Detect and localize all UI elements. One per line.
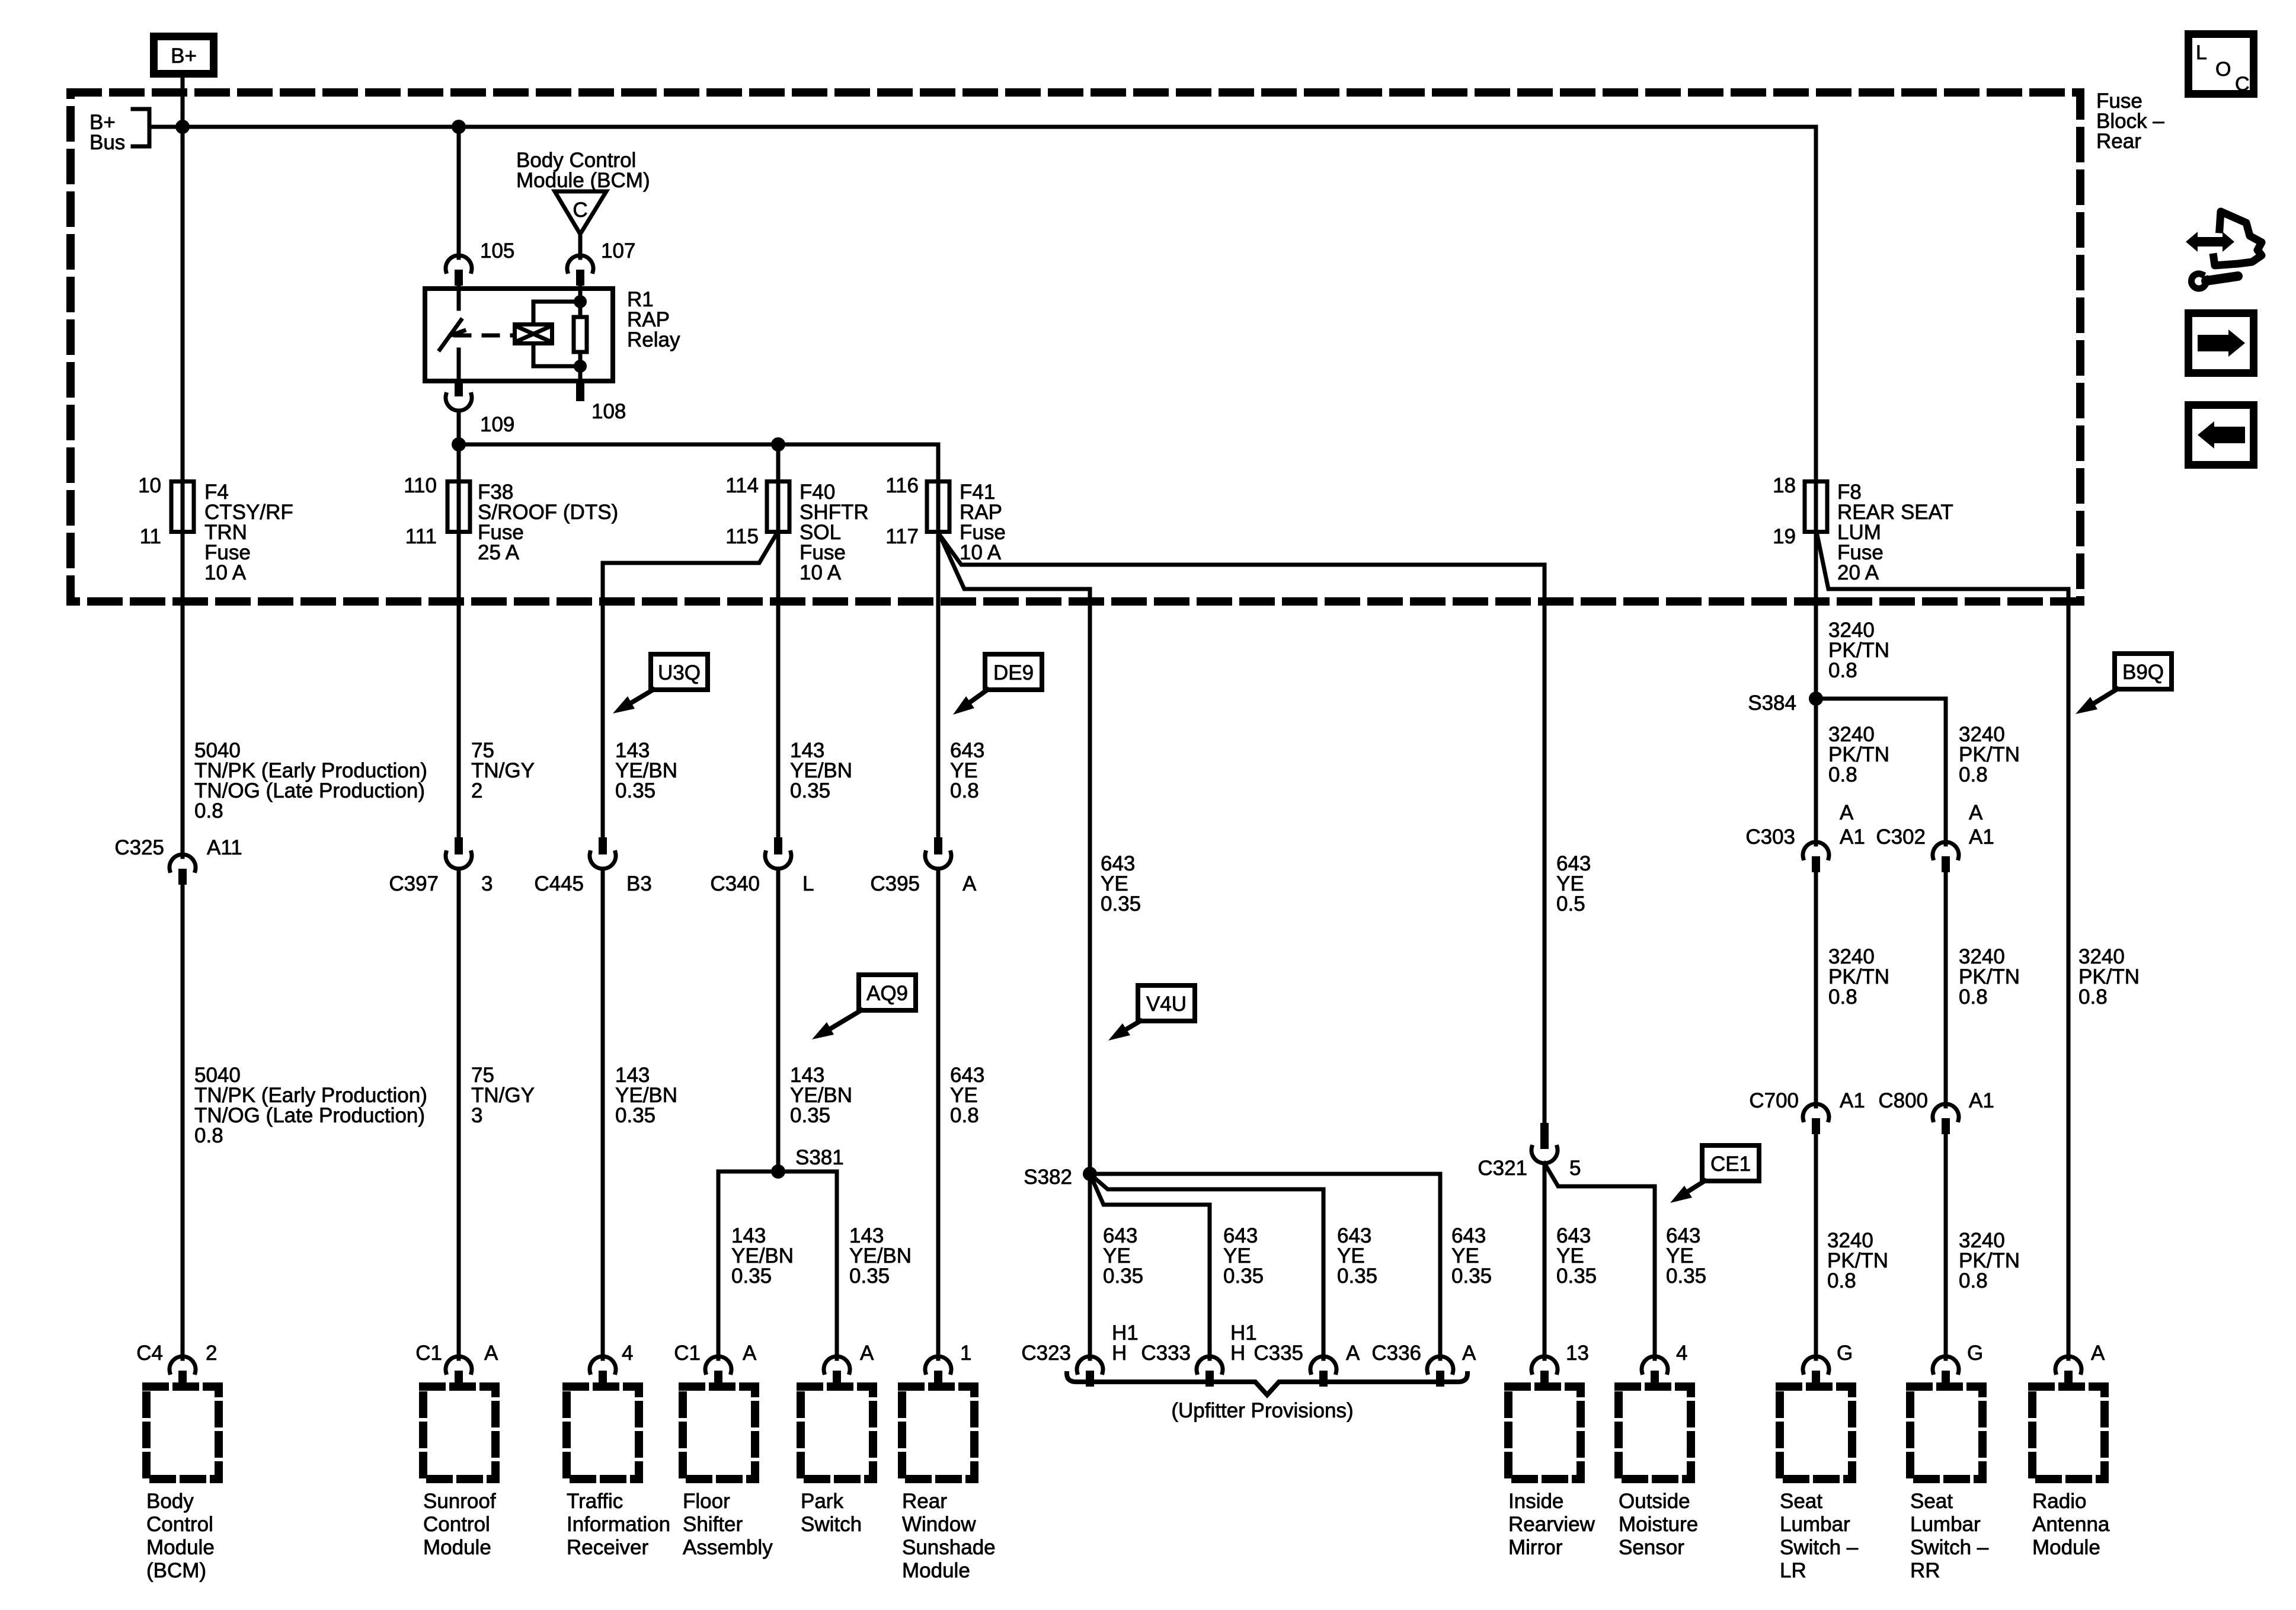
- connector C340 pin L: [774, 837, 782, 854]
- fuse block rear dashed boundary: [71, 92, 2080, 601]
- svg-text:107: 107: [601, 239, 635, 263]
- svg-text:B+: B+: [171, 44, 197, 68]
- svg-text:4: 4: [1676, 1342, 1687, 1365]
- LOC reference box: [2189, 34, 2254, 94]
- connector pin G (seat lumbar RR): [1944, 1355, 1948, 1359]
- module box Traffic Information Receiver: [567, 1387, 639, 1479]
- svg-text:A1: A1: [1969, 825, 1994, 849]
- svg-text:A: A: [484, 1342, 498, 1365]
- wire feed to F40/F41: [459, 443, 938, 447]
- svg-text:114: 114: [725, 474, 759, 497]
- svg-text:(Upfitter Provisions): (Upfitter Provisions): [1171, 1399, 1353, 1422]
- svg-text:V4U: V4U: [1146, 993, 1187, 1016]
- connector C302 pin A/A1: [1944, 840, 1948, 844]
- svg-text:A: A: [2091, 1342, 2105, 1365]
- svg-text:115: 115: [725, 525, 759, 548]
- splice S384: [1809, 692, 1823, 706]
- module box Seat Lumbar Switch RR: [1910, 1387, 1982, 1479]
- wire bus down to F8: [1814, 127, 1818, 479]
- svg-text:3: 3: [481, 872, 493, 895]
- module box Sunroof Control Module: [423, 1387, 495, 1479]
- circuit label V4U with arrow: [1138, 985, 1195, 1021]
- node B+ Bus bracket: [133, 109, 149, 146]
- svg-text:105: 105: [480, 239, 514, 263]
- wire S382 to C333: [1090, 1174, 1210, 1355]
- svg-text:C323: C323: [1021, 1342, 1071, 1365]
- connector pin 109: [455, 383, 463, 396]
- connector C325 pin A11: [181, 853, 185, 857]
- wire S381 to floor shifter: [717, 1172, 721, 1355]
- wire C325 to BCM: [181, 884, 185, 1355]
- svg-text:117: 117: [885, 525, 919, 548]
- connector C395 pin A: [934, 837, 942, 854]
- svg-text:DE9: DE9: [993, 661, 1034, 684]
- wire S381 to park switch: [835, 1172, 839, 1355]
- connector C800 pin A1: [1944, 1102, 1948, 1106]
- connector pin A (radio antenna): [2067, 1355, 2071, 1359]
- svg-text:10: 10: [138, 474, 161, 497]
- svg-text:1: 1: [960, 1342, 971, 1365]
- svg-text:C: C: [573, 199, 587, 222]
- svg-text:18: 18: [1773, 474, 1796, 497]
- svg-text:CE1: CE1: [1710, 1153, 1751, 1176]
- power node B+: [154, 37, 214, 74]
- svg-text:S384: S384: [1748, 692, 1796, 715]
- wire BCM triangle to pin 107: [578, 234, 583, 254]
- svg-text:C445: C445: [534, 872, 584, 895]
- svg-text:L: L: [802, 872, 814, 895]
- svg-text:111: 111: [405, 525, 437, 548]
- svg-text:A: A: [1462, 1342, 1476, 1365]
- svg-text:AQ9: AQ9: [866, 982, 908, 1005]
- wire C303 to C700: [1814, 872, 1818, 1102]
- svg-text:C397: C397: [389, 872, 439, 895]
- svg-text:A: A: [860, 1342, 874, 1365]
- connector pin 105: [457, 254, 461, 258]
- wire F41 branch to C321: [939, 534, 1544, 1123]
- module box Body Control Module: [146, 1387, 219, 1479]
- svg-text:2: 2: [206, 1342, 217, 1365]
- wire F8 branch to radio antenna module: [1817, 534, 2068, 1355]
- wire F40 branch to C445: [603, 534, 776, 837]
- wire pin109 to F38: [457, 411, 461, 479]
- circuit label B9Q with arrow: [2115, 654, 2172, 689]
- svg-text:109: 109: [480, 413, 514, 436]
- fuse F8: [1814, 479, 1818, 534]
- svg-text:U3Q: U3Q: [658, 661, 701, 684]
- wire C340 to S381: [776, 869, 781, 1172]
- svg-text:A1: A1: [1840, 825, 1865, 849]
- circuit label AQ9 with arrow: [859, 975, 916, 1010]
- svg-text:C395: C395: [870, 872, 920, 895]
- relay coil leads: [533, 302, 580, 322]
- svg-text:A: A: [962, 872, 977, 895]
- relay resistor: [578, 286, 583, 317]
- wire C700 to seat lumbar LR: [1814, 1134, 1818, 1355]
- splice S382: [1083, 1167, 1097, 1181]
- connector C336 pin A: [1438, 1355, 1443, 1359]
- svg-text:Body ControlModule (BCM): Body ControlModule (BCM): [516, 149, 650, 192]
- module box Outside Moisture Sensor: [1619, 1387, 1691, 1479]
- svg-text:A: A: [1346, 1342, 1360, 1365]
- svg-text:19: 19: [1773, 525, 1796, 548]
- connector C323 pin H: [1088, 1355, 1092, 1359]
- relay switch: [457, 286, 461, 309]
- splice S381: [718, 1170, 837, 1174]
- svg-text:C1: C1: [674, 1342, 701, 1365]
- svg-text:C: C: [2235, 73, 2250, 95]
- wire bus to relay pin 105: [457, 127, 461, 254]
- upfitter provisions brace: [1067, 1374, 1467, 1395]
- module box Floor Shifter Assembly: [683, 1387, 755, 1479]
- svg-text:A1: A1: [1969, 1089, 1994, 1112]
- circuit label CE1 with arrow: [1702, 1145, 1759, 1181]
- wire F41 to C395: [936, 534, 941, 837]
- junction dot 109 feed: [452, 437, 466, 452]
- svg-text:C302: C302: [1876, 825, 1926, 849]
- wire F41 branch to S382: [941, 538, 1090, 1174]
- fuse F38: [457, 479, 461, 534]
- wire B+ feed down to F4: [181, 78, 185, 479]
- svg-text:116: 116: [885, 474, 919, 497]
- wire S382 to C335: [1090, 1174, 1323, 1355]
- wire C321 branch to moisture sensor: [1544, 1163, 1655, 1355]
- svg-text:108: 108: [591, 400, 626, 423]
- wire F8 to S384: [1814, 534, 1818, 840]
- wire C321 to inside rearview mirror: [1543, 1163, 1547, 1355]
- wire F4 to C325: [181, 534, 185, 853]
- wire S382 to C336: [1090, 1174, 1440, 1355]
- module box Inside Rearview Mirror: [1508, 1387, 1581, 1479]
- svg-text:A: A: [743, 1342, 757, 1365]
- relay linkage dashed: [455, 334, 513, 338]
- svg-text:C336: C336: [1371, 1342, 1421, 1365]
- module box Seat Lumbar Switch LR: [1780, 1387, 1852, 1479]
- svg-text:11: 11: [140, 525, 161, 548]
- connector C1 pin A (sunroof): [457, 1355, 461, 1359]
- svg-text:A1: A1: [1840, 1089, 1865, 1112]
- wire B+ bus horizontal: [149, 125, 1816, 129]
- svg-text:C700: C700: [1749, 1089, 1799, 1112]
- connector pin 4 (traffic receiver): [601, 1355, 605, 1359]
- svg-text:4: 4: [622, 1342, 633, 1365]
- wire C397 to sunroof module: [457, 869, 461, 1355]
- svg-text:B3: B3: [626, 872, 652, 895]
- svg-text:B9Q: B9Q: [2122, 661, 2164, 684]
- connector C303 pin A/A1: [1814, 840, 1818, 844]
- svg-text:C333: C333: [1141, 1342, 1191, 1365]
- svg-text:G: G: [1837, 1342, 1853, 1365]
- connector C700 pin A1: [1814, 1102, 1818, 1106]
- connector C333 pin H: [1208, 1355, 1212, 1359]
- svg-text:C4: C4: [136, 1342, 163, 1365]
- junction dot bus/relay: [452, 120, 466, 134]
- wire S384 branch to C302: [1816, 699, 1946, 840]
- svg-text:C340: C340: [710, 872, 760, 895]
- forward arrow box: [2189, 313, 2254, 373]
- back arrow box: [2189, 405, 2254, 465]
- wire S382 to C323: [1088, 1174, 1092, 1355]
- fuse F40: [776, 479, 781, 534]
- relay pin 108: [576, 383, 584, 401]
- svg-text:O: O: [2215, 58, 2231, 81]
- relay R1 RAP box: [425, 289, 613, 381]
- connector pin 1 (sunshade): [936, 1355, 941, 1359]
- svg-text:C800: C800: [1878, 1089, 1928, 1112]
- wire C800 to seat lumbar RR: [1944, 1134, 1948, 1355]
- junction dot bus/F4: [175, 120, 190, 134]
- svg-text:13: 13: [1566, 1342, 1589, 1365]
- module box Rear Window Sunshade Module: [902, 1387, 974, 1479]
- module box Park Switch: [801, 1387, 873, 1479]
- wire C302 to C800: [1944, 872, 1948, 1102]
- wire C395 to sunshade module: [936, 869, 941, 1355]
- connector pin 4 (moisture sensor): [1653, 1355, 1657, 1359]
- svg-text:SunroofControlModule: SunroofControlModule: [423, 1490, 496, 1559]
- svg-text:5: 5: [1569, 1157, 1581, 1180]
- connector pin 13 (inside mirror): [1543, 1355, 1547, 1359]
- connector C445 pin B3: [599, 837, 607, 854]
- connector pin G (seat lumbar LR): [1814, 1355, 1818, 1359]
- svg-text:110: 110: [404, 474, 437, 497]
- svg-text:A: A: [1969, 801, 1983, 824]
- svg-text:H: H: [1230, 1342, 1245, 1365]
- connector C335 pin A: [1322, 1355, 1326, 1359]
- svg-text:S381: S381: [795, 1146, 844, 1169]
- circuit label DE9 with arrow: [985, 654, 1042, 690]
- connector C1 pin A (floor shifter): [717, 1355, 721, 1359]
- relay coil: [515, 325, 552, 344]
- svg-text:C335: C335: [1253, 1342, 1303, 1365]
- svg-text:C325: C325: [114, 836, 164, 859]
- relay internal node dots: [574, 295, 587, 308]
- wire F38 to C397: [457, 534, 461, 837]
- connector C4 pin 2: [181, 1355, 185, 1359]
- svg-text:A: A: [1840, 801, 1854, 824]
- wire C445 to receiver: [601, 869, 605, 1355]
- junction dot F40 feed: [771, 437, 785, 452]
- fuse F4: [181, 479, 185, 534]
- wire F40 to C340: [776, 534, 781, 837]
- svg-text:C1: C1: [415, 1342, 442, 1365]
- harness routing icon: [2214, 212, 2262, 265]
- svg-text:S382: S382: [1024, 1166, 1072, 1189]
- circuit label U3Q with arrow: [651, 654, 708, 690]
- fuse F41: [936, 479, 941, 534]
- connector C397 pin 3: [455, 837, 463, 854]
- svg-text:C321: C321: [1478, 1157, 1527, 1180]
- connector pin 107: [578, 254, 583, 258]
- svg-text:G: G: [1967, 1342, 1983, 1365]
- svg-text:L: L: [2196, 41, 2207, 64]
- svg-text:A11: A11: [207, 836, 242, 859]
- connector C321 pin 5: [1540, 1123, 1549, 1149]
- connector pin A (park switch): [835, 1355, 839, 1359]
- svg-text:H: H: [1112, 1342, 1127, 1365]
- module box Radio Antenna Module: [2032, 1387, 2105, 1479]
- svg-text:C303: C303: [1745, 825, 1795, 849]
